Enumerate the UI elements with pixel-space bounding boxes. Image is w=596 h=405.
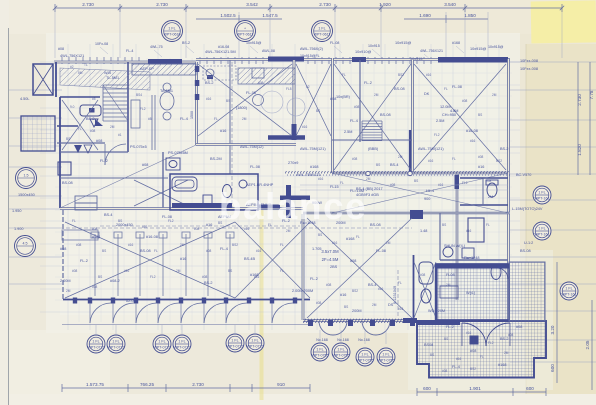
garage front door arcs bbox=[62, 303, 312, 325]
annex door swing arcs bbox=[462, 323, 510, 346]
weight room labels bbox=[321, 249, 339, 262]
svg-text:balance: balance bbox=[219, 186, 367, 227]
small stair center bbox=[362, 121, 382, 141]
circle markers right side bbox=[533, 186, 551, 204]
right small room walls bbox=[460, 178, 508, 205]
bathroom unit bbox=[170, 174, 258, 210]
annex tatami room bbox=[417, 262, 546, 378]
room diagonal braces bbox=[62, 64, 506, 318]
top wall window ticks bbox=[62, 57, 431, 64]
porch mullion tabs bbox=[308, 320, 415, 326]
left stair tower bbox=[33, 64, 53, 95]
hatched closet bbox=[60, 68, 150, 90]
circle markers bottom right bbox=[311, 343, 329, 361]
dark wall band center bbox=[258, 185, 310, 218]
dimension drop lines bbox=[55, 12, 562, 58]
hall walls bbox=[57, 126, 105, 175]
bottom dimension labels bbox=[86, 382, 534, 391]
right toilet fixtures bbox=[443, 180, 501, 280]
top band annotations bbox=[58, 41, 504, 58]
right dimension lines bbox=[557, 62, 592, 390]
fine half-module lines bbox=[55, 58, 512, 322]
building outer walls bbox=[54, 57, 510, 321]
kitchen side counter bbox=[131, 95, 155, 150]
porch step band bbox=[403, 318, 417, 323]
top dimension line bbox=[53, 4, 564, 23]
margin reference lines bbox=[9, 62, 596, 362]
garage front pillars bbox=[73, 298, 297, 304]
annex inner fixtures bbox=[419, 262, 508, 344]
left porch steps bbox=[62, 196, 98, 240]
right dimension labels bbox=[550, 90, 594, 372]
garage column tracks bbox=[66, 228, 300, 296]
staircase treads bbox=[95, 85, 128, 126]
bottom dimension line bbox=[62, 384, 546, 396]
dining table set bbox=[160, 83, 174, 120]
circle markers bottom row bbox=[87, 335, 105, 353]
yellow highlighter streak bbox=[260, 205, 264, 400]
paper left edge line bbox=[8, 28, 10, 405]
kitchen counter bbox=[203, 66, 305, 116]
drop lines to bottom-right markers bbox=[320, 330, 386, 344]
extra micro annotations bbox=[66, 63, 514, 373]
tiny text annotations bbox=[12, 41, 543, 369]
module grid lines bbox=[40, 44, 520, 330]
hall door arc bbox=[105, 144, 126, 165]
dashed utility lines bbox=[100, 62, 412, 318]
kitchenette fixture bbox=[80, 105, 101, 127]
washbasin left bbox=[166, 158, 180, 170]
entry door arcs bbox=[319, 321, 390, 335]
drop lines to bottom markers bbox=[96, 325, 255, 334]
corridor diagonals bbox=[60, 145, 508, 213]
top dimension labels bbox=[82, 2, 476, 18]
yellow sticky note top-right bbox=[531, 0, 596, 43]
light central drawing area bbox=[46, 33, 520, 333]
circle markers top bbox=[162, 21, 183, 42]
interior walls bbox=[60, 58, 510, 323]
marker captions bbox=[316, 338, 370, 342]
wall-196 door track marks bbox=[195, 66, 200, 100]
left balcony grid bbox=[21, 116, 55, 151]
kitchen counter hatch left bbox=[132, 64, 196, 75]
circle markers left bbox=[16, 168, 37, 189]
